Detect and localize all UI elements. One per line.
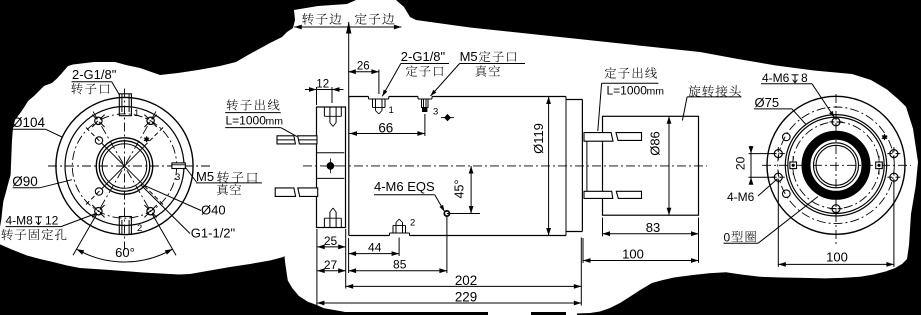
svg-text:M5: M5: [460, 49, 478, 64]
right view M6 hole top: [832, 118, 840, 126]
left view bolt-hole axis centerline upper-right to lower-left: [93, 111, 156, 220]
svg-text:Ø75: Ø75: [755, 95, 780, 110]
right view bore circle inner: [816, 145, 856, 185]
right view M6 hole right lower: [890, 173, 898, 181]
svg-text:4-M8: 4-M8: [6, 214, 34, 228]
left view bore circle middle: [99, 141, 149, 191]
label rotor fixing holes text: [1, 229, 13, 241]
svg-text:2-G1/8": 2-G1/8": [72, 67, 117, 82]
label rotor cable exit: [227, 99, 238, 110]
left view bolt-hole axis centerline upper-left to lower-right: [93, 111, 156, 220]
rotary joint neck line: [586, 141, 588, 191]
left view bolt hole 4-M8 upper-left: [95, 117, 102, 124]
svg-text:83: 83: [646, 220, 660, 235]
svg-text:202: 202: [455, 273, 477, 288]
svg-text:2: 2: [137, 223, 142, 234]
rotor flange center dot: [327, 163, 334, 170]
svg-text:8: 8: [801, 71, 808, 85]
stator port 3 M5: [421, 99, 423, 108]
left view 60 degree radial line right: [153, 215, 177, 256]
right view M6 hole bottom: [832, 205, 840, 213]
right view key square left: [790, 162, 797, 169]
right view O-ring black band: [806, 135, 866, 195]
svg-text:3: 3: [175, 172, 180, 183]
left view outer circle Ø104 flange: [56, 97, 193, 234]
svg-text:1: 1: [389, 105, 394, 116]
middle view horizontal centerline: [303, 165, 707, 167]
svg-text:L=1000: L=1000: [226, 113, 267, 127]
svg-text:26: 26: [357, 60, 370, 72]
svg-text:Ø119: Ø119: [531, 123, 546, 154]
svg-text:4-M6: 4-M6: [762, 71, 790, 85]
black background right region: [396, 0, 921, 315]
svg-text:25: 25: [324, 234, 338, 248]
4-M6 EQS hole point: [444, 211, 449, 216]
svg-text:85: 85: [393, 258, 407, 272]
left view 60 degree dimension arc: [77, 249, 173, 262]
left view bore circle inner Ø40: [102, 144, 147, 189]
stator body end face line: [565, 97, 567, 236]
leader M5 rotor port to tab 3: [186, 168, 197, 183]
svg-text:44: 44: [368, 241, 382, 255]
rotor cable bundle top: [277, 136, 295, 144]
right view boss circle outer: [785, 115, 886, 216]
right view M6 hole right upper: [890, 150, 898, 158]
left view bolt hole 4-M8 upper-right: [147, 117, 154, 124]
left view dashed diagonal thread lines: [144, 186, 165, 207]
right view bore circle outer: [814, 143, 859, 188]
left view small hole upper-left: [95, 137, 102, 144]
left view small star mark upper-right: [144, 138, 149, 141]
stator body top edge with port recesses: [349, 96, 369, 98]
stator body bottom edge with port recess: [349, 235, 390, 237]
left view top port tab G1/8 no.1: [119, 94, 131, 116]
rotor flange divider lower: [317, 177, 345, 179]
leader 2-G1/8 to top tab: [112, 82, 120, 95]
right view M6 hole left upper: [774, 150, 782, 158]
right view outer hole circle dash-dot: [778, 107, 895, 224]
label stator cable exit: [605, 67, 616, 78]
svg-text:100: 100: [826, 250, 848, 265]
left view 60 degree radial line left: [73, 215, 97, 256]
black background bottom-left region: [0, 244, 488, 315]
svg-text:2: 2: [410, 218, 415, 229]
left view vertical centerline: [124, 89, 126, 251]
stator body end cap: [566, 99, 582, 101]
svg-text:0: 0: [724, 231, 731, 245]
right view boss circle inner: [788, 117, 884, 213]
left view small hole lower-left: [95, 188, 102, 195]
leader stator cable: [598, 83, 602, 131]
svg-text:20: 20: [734, 156, 748, 170]
svg-text:12: 12: [316, 78, 329, 90]
svg-text:100: 100: [622, 246, 644, 261]
rotor flange divider upper: [317, 152, 345, 154]
svg-text:229: 229: [455, 289, 477, 304]
svg-text:mm: mm: [647, 85, 665, 97]
left view right port tab M5 no.3: [172, 163, 185, 169]
svg-text:4-M6 EQS: 4-M6 EQS: [374, 179, 435, 194]
svg-text:4-M6: 4-M6: [727, 190, 755, 204]
right view plain hole upper-left: [783, 133, 791, 141]
svg-text:3: 3: [433, 107, 438, 118]
svg-text:Ø40: Ø40: [201, 203, 226, 218]
right view key square right: [876, 162, 883, 169]
right view M6 hole left lower: [774, 173, 782, 181]
right view Ø75 bolt circle dash-dot: [793, 122, 880, 209]
left view bottom port tab G1/8 no.2: [119, 217, 131, 235]
left view bolt circle (dash-dot): [72, 114, 176, 218]
stator cable bottom pieces: [584, 191, 613, 198]
right view horizontal centerline: [762, 164, 911, 166]
svg-text:G1-1/2": G1-1/2": [191, 226, 236, 241]
stator cable top pieces: [584, 133, 613, 142]
dimension rotor side / stator side: [302, 13, 314, 25]
svg-text:12: 12: [45, 214, 59, 228]
rotor cable bundle bottom: [275, 188, 295, 197]
leader rotor cable to bundle: [281, 128, 297, 137]
right view outer circle: [767, 96, 905, 234]
right view plain hole lower-left: [783, 190, 791, 198]
leader 4-M6 depth to top hole: [812, 84, 835, 118]
left view bolt hole 4-M8 lower-right: [147, 208, 154, 215]
svg-text:Ø90: Ø90: [12, 174, 38, 189]
rotor flange bottom tapped port: [323, 218, 325, 227]
svg-text:Ø86: Ø86: [648, 131, 663, 156]
left view bolt hole 4-M8 lower-left: [95, 208, 102, 215]
black background top-left region: [0, 0, 356, 227]
left view Ø90 boss circle: [65, 107, 184, 226]
label rotary joint: [688, 85, 700, 97]
stator body left edge: [348, 97, 350, 236]
svg-text:60°: 60°: [115, 245, 135, 260]
svg-text:2-G1/8": 2-G1/8": [401, 49, 446, 64]
svg-text:L=1000: L=1000: [607, 83, 648, 97]
right view star mark upper-right: [882, 136, 887, 139]
black background bottom strip: [531, 312, 566, 315]
svg-text:M5: M5: [196, 169, 214, 184]
left view bore circle outer G1-1/2 thread: [96, 138, 152, 194]
svg-text:mm: mm: [266, 115, 284, 127]
svg-text:Ø104: Ø104: [12, 115, 46, 130]
rotor flange plate outline: [317, 107, 346, 228]
rotary joint block outline: [603, 116, 699, 215]
stator port 2 G1/8 bottom: [392, 226, 394, 234]
stator port 1 G1/8: [372, 99, 374, 108]
rotor flange top tapped port: [323, 107, 325, 116]
svg-text:1: 1: [134, 108, 139, 119]
right view vertical centerline: [835, 94, 837, 244]
left view horizontal centerline: [48, 165, 211, 167]
position mark diamond near port 3: [444, 114, 451, 121]
left view diagonal lines solid inside bore: [125, 166, 144, 185]
svg-text:27: 27: [324, 258, 338, 272]
svg-text:45°: 45°: [453, 180, 467, 199]
